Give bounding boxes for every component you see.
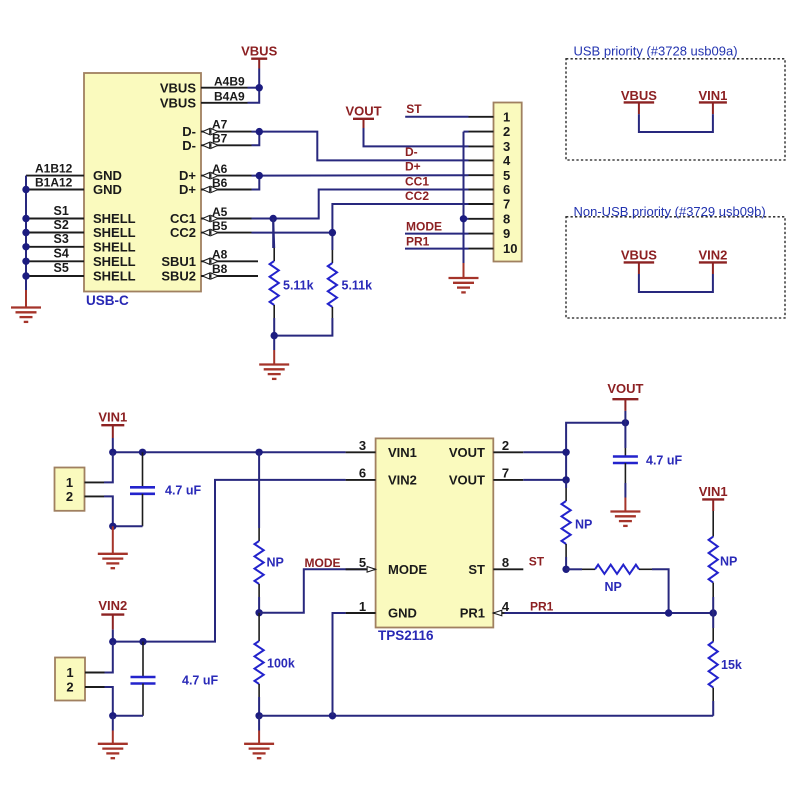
junction VOUT pin7	[562, 476, 569, 483]
svg-text:CC2: CC2	[405, 189, 429, 203]
port VIN2 left	[98, 598, 127, 629]
svg-text:VIN1: VIN1	[698, 88, 727, 103]
ic U1 TPS2116 body	[376, 438, 494, 627]
pin 3 header stub	[469, 145, 494, 147]
svg-text:15k: 15k	[721, 658, 742, 672]
connector J1 USB-C body	[84, 73, 201, 292]
connector J3 2-pin body	[55, 468, 85, 511]
svg-text:4.7 uF: 4.7 uF	[182, 673, 218, 687]
svg-text:8: 8	[502, 555, 509, 570]
ground shell bus	[11, 290, 41, 322]
svg-text:8: 8	[503, 211, 510, 226]
svg-text:5: 5	[503, 168, 510, 183]
junction VBUS	[256, 84, 263, 91]
port VIN1 right	[699, 484, 728, 511]
svg-text:B4A9: B4A9	[214, 90, 245, 104]
svg-text:A7: A7	[212, 118, 228, 132]
svg-text:SHELL: SHELL	[93, 239, 136, 254]
svg-text:SHELL: SHELL	[93, 269, 136, 284]
svg-text:USB priority (#3728 usb09a): USB priority (#3728 usb09a)	[574, 44, 738, 59]
pin 8 header stub	[469, 218, 494, 220]
wire J4 pin2 to gnd	[105, 687, 113, 716]
pin 6 header stub	[469, 189, 494, 191]
svg-text:NP: NP	[720, 554, 737, 568]
svg-text:A1B12: A1B12	[35, 161, 73, 175]
junction bottom gnd left	[255, 712, 262, 719]
junction S1	[22, 215, 29, 222]
junction VIN1 stub	[109, 449, 116, 456]
svg-text:SBU1: SBU1	[161, 254, 196, 269]
svg-text:GND: GND	[93, 182, 122, 197]
junction CC1	[270, 215, 277, 222]
wire MODE to pin9	[405, 233, 469, 235]
svg-text:2: 2	[503, 124, 510, 139]
svg-text:D-: D-	[182, 138, 196, 153]
junction VOUT cap	[622, 419, 629, 426]
svg-text:PR1: PR1	[406, 235, 430, 249]
junction CC2	[329, 229, 336, 236]
pin 9 header stub	[469, 233, 494, 235]
pin 1 U1 GND	[346, 599, 376, 614]
resistor R7 NP	[709, 511, 738, 613]
pin B7 (D-)	[201, 132, 252, 149]
pin S1 (SHELL)	[26, 204, 84, 219]
svg-text:USB-C: USB-C	[86, 293, 129, 308]
svg-text:10: 10	[503, 241, 517, 256]
connector J4 2-pin body	[55, 658, 85, 701]
svg-text:1: 1	[503, 109, 510, 124]
svg-text:B6: B6	[212, 176, 228, 190]
wire J4 pin1 to VIN2	[105, 642, 113, 673]
wire C2 bottom	[113, 715, 143, 717]
svg-text:VIN2: VIN2	[698, 247, 727, 262]
resistor R6 NP horizontal	[566, 565, 669, 613]
svg-text:VBUS: VBUS	[241, 43, 277, 58]
svg-text:MODE: MODE	[388, 562, 427, 577]
wire R3 to junction	[258, 597, 260, 613]
ground header	[449, 263, 479, 292]
dashed box Non-USB priority	[566, 217, 785, 318]
svg-text:100k: 100k	[267, 656, 295, 670]
svg-text:4.7 uF: 4.7 uF	[165, 483, 201, 497]
pin 4 header stub	[469, 159, 494, 161]
ground CC divider	[259, 350, 289, 379]
ground VIN1 conn	[98, 526, 128, 568]
svg-text:SHELL: SHELL	[93, 254, 136, 269]
connector J2 10-pin header body	[494, 103, 522, 262]
svg-text:7: 7	[502, 466, 509, 481]
port VIN1 option a	[698, 88, 727, 114]
svg-text:VBUS: VBUS	[621, 88, 657, 103]
pin B6 (D+)	[201, 176, 252, 193]
svg-text:S4: S4	[54, 246, 69, 260]
junction B1A12	[22, 186, 29, 193]
svg-text:SHELL: SHELL	[93, 211, 136, 226]
junction VIN1 column	[255, 449, 262, 456]
pin S5 (SHELL)	[26, 261, 84, 276]
pin A4B9 (VBUS)	[201, 74, 248, 88]
svg-text:B8: B8	[212, 262, 228, 276]
pin 1 J4	[85, 672, 105, 674]
wire R4 bottom	[258, 697, 260, 716]
wire ST to pin1	[405, 116, 468, 118]
resistor R1 5.11k	[270, 248, 314, 318]
wire PR1 net	[505, 612, 714, 614]
wire header GND net	[464, 131, 469, 133]
wire VOUT port stub	[624, 411, 626, 423]
pin B1A12 (GND)	[26, 176, 84, 190]
junction VIN2 cap	[139, 638, 146, 645]
port VBUS option b	[621, 247, 657, 274]
wire VIN2 net	[112, 630, 114, 642]
wire PR1 to pin10	[405, 248, 469, 250]
pin 2 header stub	[469, 131, 494, 133]
svg-text:1: 1	[66, 475, 73, 490]
svg-text:3: 3	[503, 139, 510, 154]
svg-text:1: 1	[66, 665, 73, 680]
svg-text:D+: D+	[179, 182, 196, 197]
pin 7 U1 VOUT	[493, 466, 523, 481]
svg-text:B7: B7	[212, 132, 228, 146]
svg-text:VOUT: VOUT	[345, 103, 381, 118]
pin 2 J4	[85, 686, 105, 688]
wire J3 pin1 to VIN1	[104, 452, 113, 482]
svg-text:ST: ST	[529, 555, 545, 569]
pin A5 (CC1)	[201, 205, 252, 222]
svg-text:7: 7	[503, 197, 510, 212]
pin B8 (SBU2)	[201, 262, 258, 279]
svg-text:PR1: PR1	[530, 599, 554, 613]
pin 8 U1 ST	[493, 555, 523, 570]
pin A6 (D+)	[201, 162, 252, 179]
svg-text:5.11k: 5.11k	[283, 278, 314, 292]
junction bottom gnd mid	[329, 712, 336, 719]
svg-text:PR1: PR1	[460, 606, 485, 621]
junction D+	[256, 172, 263, 179]
svg-text:4: 4	[503, 153, 511, 168]
svg-text:B1A12: B1A12	[35, 176, 73, 190]
svg-text:B5: B5	[212, 219, 228, 233]
wire VBUS net	[248, 87, 260, 89]
svg-text:SBU2: SBU2	[161, 269, 196, 284]
pin 1 header stub	[469, 116, 494, 118]
svg-text:VIN1: VIN1	[699, 484, 728, 499]
wire MODE branch	[259, 569, 366, 613]
pin 2 U1 VOUT	[493, 438, 523, 453]
wire U1 GND to rail	[333, 613, 346, 716]
capacitor C2 4.7uF	[131, 642, 219, 716]
port VIN1 left	[98, 410, 127, 438]
junction header GND pin8	[460, 215, 467, 222]
capacitor C1 4.7uF	[130, 452, 201, 526]
svg-text:MODE: MODE	[305, 556, 341, 570]
wire CC1 net	[252, 218, 274, 220]
svg-text:S2: S2	[54, 218, 69, 232]
pin 4 U1 PR1	[493, 599, 510, 616]
wire bottom gnd rail	[259, 715, 713, 717]
port VOUT top	[345, 103, 381, 128]
svg-text:SHELL: SHELL	[93, 225, 136, 240]
svg-text:ST: ST	[468, 562, 485, 577]
svg-text:GND: GND	[388, 606, 417, 621]
svg-text:ST: ST	[406, 102, 422, 116]
svg-text:VIN2: VIN2	[388, 473, 417, 488]
junction S3	[22, 243, 29, 250]
pin 5 U1 MODE	[346, 555, 376, 572]
svg-text:4: 4	[502, 599, 510, 614]
svg-text:VBUS: VBUS	[160, 95, 196, 110]
wire VBUS-VIN2 option b	[639, 274, 713, 292]
junction VOUT pin2	[562, 449, 569, 456]
wire R1 top	[273, 219, 274, 249]
pin 6 U1 VIN2	[346, 466, 376, 481]
resistor R4 100k	[255, 613, 295, 697]
svg-text:VIN1: VIN1	[98, 410, 127, 425]
svg-text:CC1: CC1	[170, 211, 196, 226]
pin 2 J3	[85, 495, 105, 497]
svg-text:MODE: MODE	[406, 219, 442, 233]
pin S3 (SHELL)	[26, 232, 84, 247]
svg-text:3: 3	[359, 438, 366, 453]
svg-text:D+: D+	[405, 160, 421, 174]
svg-text:TPS2116: TPS2116	[378, 628, 434, 643]
junction VIN2 stub	[109, 638, 116, 645]
resistor R8 15k	[709, 613, 742, 716]
ground C3	[610, 498, 640, 526]
svg-text:1: 1	[359, 599, 366, 614]
junction R1 bottom	[271, 332, 278, 339]
svg-text:GND: GND	[93, 168, 122, 183]
junction ST	[562, 566, 569, 573]
pin 3 U1 VIN1	[346, 438, 376, 453]
wire D+ net	[252, 176, 260, 190]
svg-text:5.11k: 5.11k	[342, 278, 373, 292]
wire C1 bottom	[113, 525, 143, 527]
svg-text:VOUT: VOUT	[607, 381, 643, 396]
ground bottom rail	[258, 716, 260, 731]
wire shell/GND bus to ground	[25, 176, 27, 290]
svg-text:CC1: CC1	[405, 174, 429, 188]
svg-text:A8: A8	[212, 248, 228, 262]
junction S2	[22, 229, 29, 236]
junction C2 gnd	[109, 712, 116, 719]
svg-text:6: 6	[359, 466, 366, 481]
pin B4A9 (VBUS)	[201, 90, 248, 104]
junction MODE divider	[255, 609, 262, 616]
junction S4	[22, 258, 29, 265]
svg-text:2: 2	[502, 438, 509, 453]
pin A1B12 (GND)	[26, 161, 84, 175]
port VBUS top	[241, 43, 277, 68]
wire VIN1 net row	[112, 438, 114, 452]
junction PR1 column	[710, 609, 717, 616]
pin 10 header stub	[469, 248, 494, 250]
wire D- net	[252, 132, 260, 146]
svg-text:4.7 uF: 4.7 uF	[646, 453, 682, 467]
svg-text:NP: NP	[575, 517, 592, 531]
svg-text:S5: S5	[54, 261, 69, 275]
wire R1 R2 bottoms to ground	[273, 318, 275, 336]
resistor R3 NP vertical	[255, 528, 284, 597]
svg-text:NP: NP	[605, 580, 622, 594]
svg-text:VOUT: VOUT	[449, 473, 485, 488]
port VOUT right	[607, 381, 643, 411]
wire J3 pin2 to gnd	[104, 496, 113, 526]
svg-text:9: 9	[503, 226, 510, 241]
pin 7 header stub	[469, 203, 494, 205]
svg-text:5: 5	[359, 555, 366, 570]
wire VOUT net right	[523, 451, 566, 453]
wire VOUT to pin3	[364, 128, 469, 146]
svg-text:CC2: CC2	[170, 225, 196, 240]
svg-text:Non-USB priority (#3729 usb09b: Non-USB priority (#3729 usb09b)	[574, 204, 766, 219]
svg-text:A6: A6	[212, 162, 228, 176]
capacitor C3 4.7uF	[613, 423, 683, 498]
svg-text:2: 2	[66, 489, 73, 504]
pin A8 (SBU1)	[201, 248, 258, 265]
port VBUS option a	[621, 88, 657, 114]
resistor R2 5.11k	[328, 250, 372, 318]
svg-text:VBUS: VBUS	[621, 247, 657, 262]
svg-text:S1: S1	[54, 204, 69, 218]
pin A7 (D-)	[201, 118, 252, 135]
svg-text:6: 6	[503, 182, 510, 197]
pin S4 (SHELL)	[26, 246, 84, 261]
svg-text:VOUT: VOUT	[449, 445, 485, 460]
svg-text:NP: NP	[267, 555, 284, 569]
svg-text:A5: A5	[212, 205, 228, 219]
svg-text:A4B9: A4B9	[214, 74, 245, 88]
svg-text:S3: S3	[54, 232, 69, 246]
dashed box USB priority	[566, 59, 785, 160]
resistor R5 NP	[562, 480, 593, 569]
junction VIN1 cap	[139, 449, 146, 456]
ground VIN2 conn	[112, 716, 114, 731]
pin B5 (CC2)	[201, 219, 252, 236]
wire CC2 net	[252, 232, 333, 234]
pin 1 J3	[85, 481, 105, 483]
wire VIN1 column upper	[258, 452, 260, 528]
wire VBUS-VIN1 option a	[639, 114, 713, 132]
junction C1 gnd	[109, 523, 116, 530]
port VIN2 option b	[698, 247, 727, 274]
svg-text:D+: D+	[179, 168, 196, 183]
junction D-	[256, 128, 263, 135]
svg-text:VIN2: VIN2	[98, 598, 127, 613]
svg-text:2: 2	[66, 680, 73, 695]
junction PR1 R6	[665, 609, 672, 616]
svg-text:VBUS: VBUS	[160, 80, 196, 95]
junction S5	[22, 272, 29, 279]
pin 5 header stub	[469, 174, 494, 176]
svg-text:VIN1: VIN1	[388, 445, 417, 460]
pin S2 (SHELL)	[26, 218, 84, 233]
